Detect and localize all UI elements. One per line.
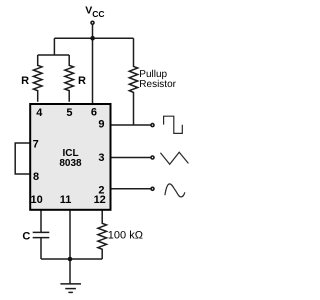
svg-text:9: 9 bbox=[98, 119, 104, 131]
svg-text:5: 5 bbox=[66, 107, 72, 119]
svg-text:10: 10 bbox=[30, 194, 42, 206]
svg-text:4: 4 bbox=[36, 107, 43, 119]
svg-text:8038: 8038 bbox=[59, 158, 82, 169]
svg-text:6: 6 bbox=[91, 107, 97, 119]
svg-text:R: R bbox=[78, 75, 86, 87]
svg-text:C: C bbox=[22, 230, 30, 242]
svg-text:3: 3 bbox=[98, 152, 104, 164]
svg-text:12: 12 bbox=[94, 194, 106, 206]
svg-text:7: 7 bbox=[33, 138, 39, 150]
svg-text:R: R bbox=[21, 75, 29, 87]
svg-text:8: 8 bbox=[33, 171, 39, 183]
svg-text:100 kΩ: 100 kΩ bbox=[108, 230, 143, 242]
svg-text:11: 11 bbox=[60, 194, 72, 206]
svg-text:CC: CC bbox=[92, 9, 104, 19]
svg-text:Resistor: Resistor bbox=[139, 79, 176, 90]
